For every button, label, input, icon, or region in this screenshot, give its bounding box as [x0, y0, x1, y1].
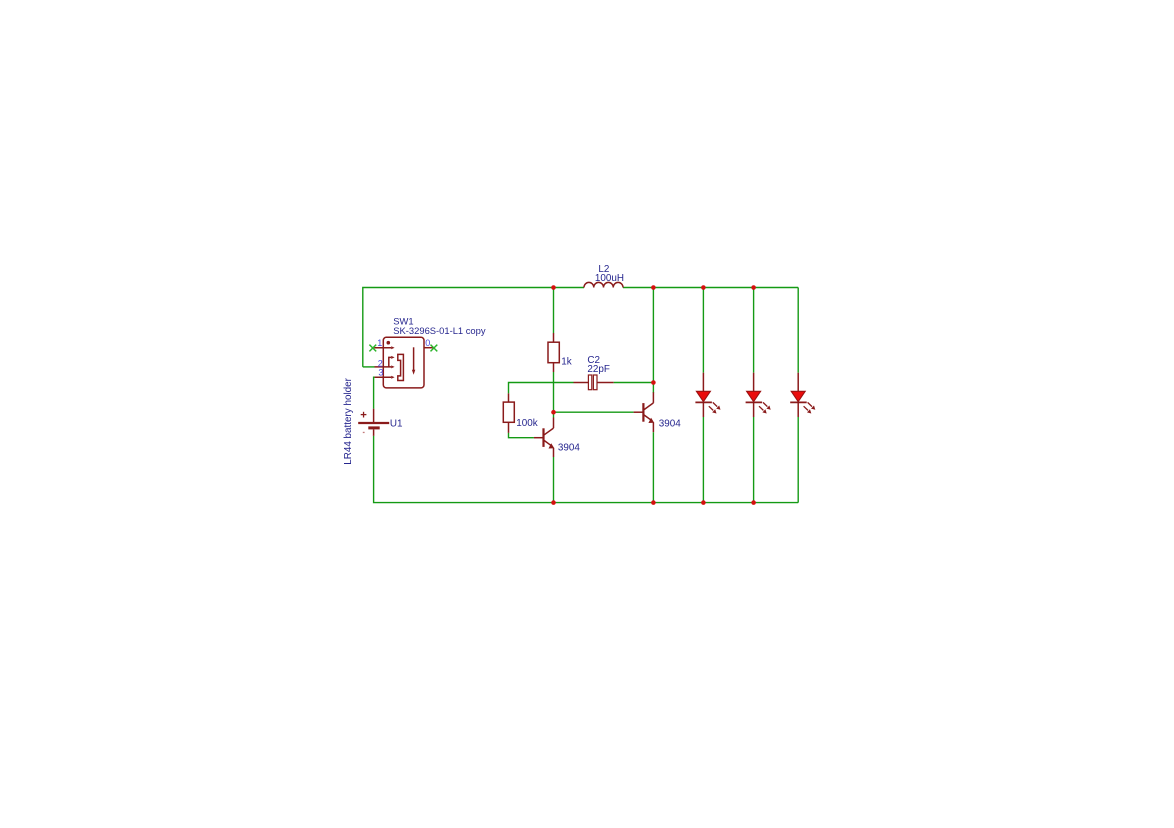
svg-text:3904: 3904: [659, 418, 681, 429]
resistor R 100k: [503, 393, 514, 433]
wire LED2 column upper: [753, 288, 755, 373]
wire col 553 upper: [553, 288, 555, 334]
junction top 703: [701, 285, 706, 290]
battery U1: [358, 409, 389, 436]
wire C2 to Q2 collector node: [614, 382, 654, 384]
switch SW1: [374, 337, 434, 388]
wire col 553 mid: [553, 372, 555, 418]
junction top 753: [751, 285, 756, 290]
LED D1: [695, 373, 720, 417]
junction bottom 703: [701, 500, 706, 505]
svg-text:3904: 3904: [558, 442, 580, 453]
wire Q2 emitter down: [652, 432, 654, 502]
wire col 653 upper: [652, 288, 654, 394]
svg-text:1k: 1k: [561, 356, 571, 367]
wire right rail: [797, 288, 799, 373]
no-connect X pin1: [369, 345, 376, 352]
junction top 553: [551, 285, 556, 290]
svg-text:SK-3296S-01-L1 copy: SK-3296S-01-L1 copy: [393, 325, 486, 336]
svg-text:100k: 100k: [516, 418, 537, 429]
junction node C2-Q2: [651, 380, 656, 385]
transistor Q1 3904: [534, 418, 554, 458]
wire C2 row left: [509, 383, 574, 394]
resistor R 1k: [548, 333, 559, 372]
no-connect X pin0: [431, 345, 438, 352]
svg-text:LR44 battery holder: LR44 battery holder: [343, 377, 354, 464]
wire pin3 to battery: [374, 377, 375, 409]
LED D2: [746, 373, 771, 417]
wire pin2 stub: [363, 366, 375, 368]
wire 100k to Q1 base: [509, 433, 534, 438]
capacitor C2: [574, 375, 614, 390]
wire top rail right segment: [623, 287, 798, 289]
wire right rail lower: [797, 417, 799, 503]
wire LED1 column lower: [702, 417, 704, 503]
svg-text:0: 0: [425, 338, 430, 348]
svg-text:U1: U1: [390, 419, 403, 430]
svg-text:3: 3: [378, 368, 383, 378]
wire LED2 column lower: [753, 417, 755, 503]
junction bottom 553: [551, 500, 556, 505]
junction bottom 653: [651, 500, 656, 505]
wire LED1 column upper: [702, 288, 704, 373]
svg-text:100uH: 100uH: [595, 273, 624, 284]
junction bottom 753: [751, 500, 756, 505]
wire Q2 base row: [554, 411, 634, 413]
wire battery minus to bottom rail: [374, 436, 799, 503]
junction top 653: [651, 285, 656, 290]
wire top rail left segment: [363, 288, 584, 367]
wire Q1 emitter down: [553, 457, 555, 503]
junction node Q1 collector: [551, 410, 556, 415]
svg-text:1: 1: [377, 338, 382, 348]
inductor L2: [584, 282, 623, 287]
LED D3: [790, 373, 815, 417]
transistor Q2 3904: [634, 392, 655, 432]
svg-text:22pF: 22pF: [587, 364, 610, 375]
